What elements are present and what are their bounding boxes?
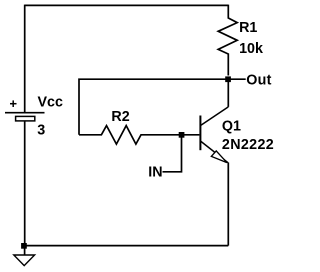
- svg-text:R2: R2: [111, 109, 129, 125]
- battery V1 Vcc bottom plate: [16, 116, 35, 121]
- resistor R1: [218, 5, 237, 76]
- wire left rail upper (Vcc to battery): [24, 5, 26, 112]
- node Out dot: [225, 76, 231, 82]
- transistor Q1 emitter line: [201, 141, 228, 162]
- wire emitter vertical (Q1 to bottom rail): [227, 163, 229, 246]
- svg-text:Vcc: Vcc: [38, 95, 63, 111]
- transistor Q1 collector line: [201, 107, 228, 125]
- node ground junction dot: [21, 243, 27, 249]
- ground: [14, 246, 35, 266]
- svg-text:Out: Out: [246, 72, 272, 88]
- svg-text:Q1: Q1: [222, 119, 241, 135]
- resistor R2: [79, 126, 182, 145]
- battery V1 Vcc top plate: [5, 112, 45, 114]
- transistor Q1 emitter arrow: [211, 151, 227, 163]
- svg-text:R1: R1: [239, 20, 257, 36]
- wire top rail: [25, 4, 229, 6]
- transistor Q1 base bar: [199, 116, 201, 151]
- wire collector vertical (Out dot to Q1): [227, 79, 229, 107]
- wire left rail lower (battery to ground rail): [24, 121, 26, 246]
- wire base (dot to transistor): [182, 134, 200, 136]
- svg-text:IN: IN: [148, 165, 162, 181]
- wire Out stub: [228, 78, 245, 80]
- battery plus sign: [10, 100, 17, 107]
- wire bottom rail: [25, 245, 229, 247]
- wire feedback (Out to R2): [79, 79, 228, 135]
- svg-text:3: 3: [37, 123, 45, 139]
- wire IN stub: [163, 135, 182, 172]
- svg-text:2N2222: 2N2222: [222, 137, 274, 153]
- svg-text:10k: 10k: [239, 41, 263, 57]
- node base junction dot: [179, 132, 185, 138]
